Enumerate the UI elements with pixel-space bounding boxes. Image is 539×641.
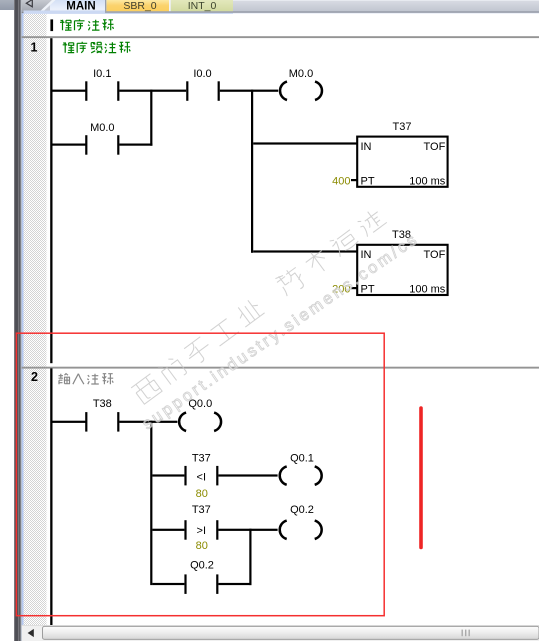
wire from M0.0 contact to junction (119, 144, 152, 146)
timer box T38 (357, 245, 447, 295)
svg-text:I0.0: I0.0 (193, 68, 211, 80)
red annotation vertical line (419, 408, 423, 548)
junction down to M0.0 branch (150, 90, 152, 146)
left pane top gray box (0, 0, 14, 10)
coil Q0.1 (280, 466, 287, 484)
wire M0.0 branch row (53, 144, 86, 146)
separator line 2 (22, 367, 539, 369)
PT pin tick T37 (351, 179, 357, 181)
svg-text:INT_0: INT_0 (188, 0, 217, 12)
svg-text:T37: T37 (192, 453, 211, 465)
wire to T37 IN (253, 142, 356, 144)
blue pane border line (22, 10, 24, 641)
wire row3 to coil (218, 529, 277, 531)
compare contact T37 < (184, 466, 186, 486)
svg-text:>I: >I (197, 525, 206, 537)
timer box T37 (357, 137, 447, 187)
svg-text:2: 2 (31, 370, 38, 384)
tab bar filler (24, 0, 539, 14)
compare contact T37 > (184, 520, 186, 540)
svg-text:IN: IN (361, 141, 372, 153)
junction down to timer branches (251, 90, 253, 253)
grip (462, 630, 463, 637)
left power rail net2 (50, 368, 52, 625)
svg-text:<I: <I (197, 471, 206, 483)
program comment 程序注释 (green) (60, 19, 114, 30)
wire row1 from rail (53, 90, 86, 92)
coil Q0.0 (179, 413, 186, 431)
contact M0.0 (85, 135, 87, 155)
coil Q0.2 (280, 521, 287, 539)
tab SBR_0 (105, 0, 106, 11)
wire row2 (152, 474, 184, 476)
contact Q0.2 (184, 574, 186, 594)
svg-text:TOF: TOF (424, 249, 446, 261)
tab INT_0 (169, 0, 171, 11)
right junction vertical row3-row4 (249, 529, 251, 585)
svg-text:80: 80 (196, 488, 208, 500)
bottom horizontal scrollbar (22, 625, 539, 641)
svg-text:100 ms: 100 ms (409, 284, 446, 296)
wire row4 to junction (218, 583, 251, 585)
contact I0.0 (186, 81, 188, 101)
svg-text:Q0.2: Q0.2 (290, 504, 314, 516)
svg-text:T37: T37 (192, 504, 211, 516)
wire to coil M0.0 (220, 90, 278, 92)
network 1 comment 程序段注释 (green) (63, 42, 131, 53)
network 2 comment 输入注释 (gray) (59, 374, 114, 385)
svg-text:Q0.2: Q0.2 (190, 560, 214, 572)
svg-text:I0.1: I0.1 (93, 68, 111, 80)
svg-text:T37: T37 (393, 121, 412, 133)
wire row2 to coil (218, 474, 277, 476)
wire to T38 IN (253, 250, 356, 252)
contact T38 (85, 412, 87, 432)
wire row4 (152, 583, 184, 585)
junction vertical net2 (150, 421, 152, 585)
svg-text:Q0.1: Q0.1 (290, 453, 314, 465)
svg-text:80: 80 (196, 540, 208, 552)
svg-text:1: 1 (31, 40, 38, 54)
separator line 1 (22, 36, 539, 38)
svg-text:PT: PT (361, 176, 375, 188)
wire row3 (152, 529, 184, 531)
svg-text:100 ms: 100 ms (409, 176, 446, 188)
comment caret (50, 19, 53, 31)
svg-text:TOF: TOF (424, 141, 446, 153)
thumb (43, 626, 539, 639)
window splitter bar (14, 0, 22, 641)
red annotation rectangle (16, 333, 384, 616)
coil M0.0 (280, 82, 287, 100)
left power rail net1 (50, 38, 52, 363)
left arrow button (28, 629, 34, 637)
svg-text:SBR_0: SBR_0 (123, 0, 156, 12)
wire to coil Q0.0 (119, 421, 177, 423)
tab MAIN (active) (50, 0, 105, 14)
wire between I0.1 and I0.0 (119, 90, 186, 92)
blue strip under tabs (24, 11, 106, 14)
contact I0.1 (85, 81, 87, 101)
PT pin tick T38 (351, 287, 357, 289)
wire row1 net2 (53, 421, 86, 423)
dithered margin column (24, 14, 47, 625)
svg-text:400: 400 (332, 176, 350, 188)
svg-text:M0.0: M0.0 (90, 122, 114, 134)
tab scroll button (22, 0, 52, 13)
svg-text:M0.0: M0.0 (289, 68, 313, 80)
svg-text:T38: T38 (93, 398, 112, 410)
